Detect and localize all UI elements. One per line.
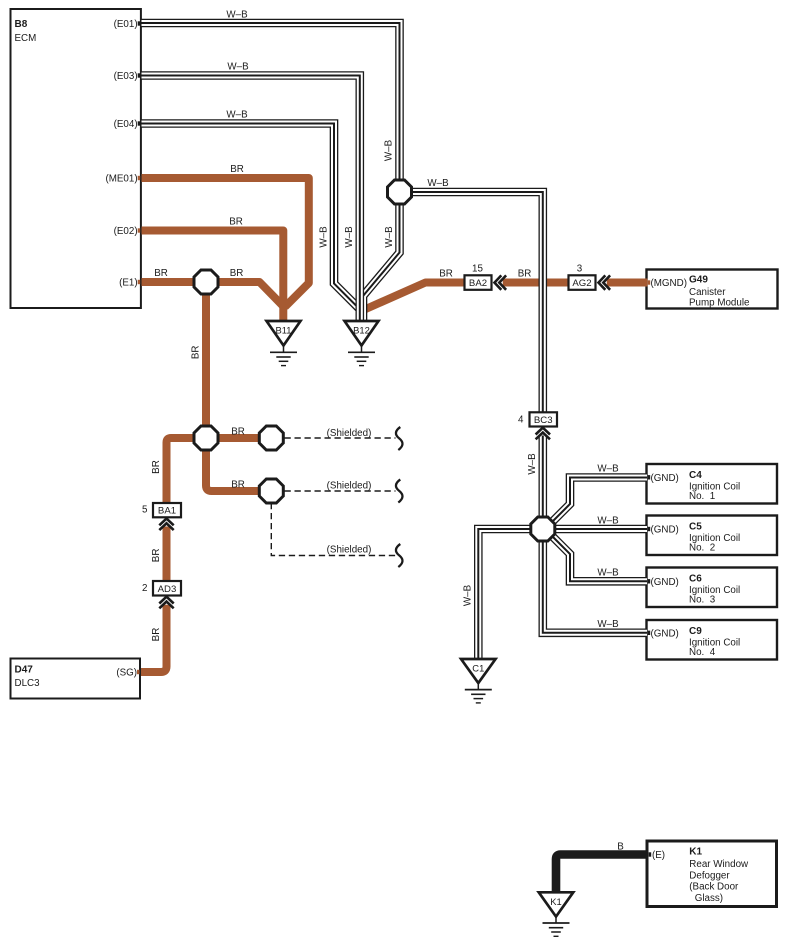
- junction node C (ignition coil splice): [531, 517, 555, 541]
- wire BR from ECM (E1) to junction A: [142, 278, 207, 286]
- connector AD3: [153, 581, 181, 596]
- pin nub SG: [137, 670, 140, 674]
- shield continuation squiggle row 1: [396, 427, 403, 450]
- wire BR from ECM (E02) to B11: [142, 231, 284, 325]
- pin nub E03: [138, 73, 141, 77]
- svg-text:BR: BR: [154, 268, 168, 279]
- ground K1 earth bars: [543, 917, 570, 937]
- svg-text:W–B: W–B: [384, 226, 395, 248]
- wire W-B from ECM (E04) to ground B12: [142, 124, 360, 317]
- wire BR junction D to shield junction F: [206, 448, 260, 491]
- wire W-B junction B to connector BC3: [411, 192, 543, 413]
- svg-text:AD3: AD3: [158, 584, 177, 595]
- pin nub GND of C4: [648, 475, 651, 479]
- C9 Ignition Coil No. 4 box: [647, 620, 778, 660]
- svg-text:C9: C9: [689, 626, 702, 637]
- C6 Ignition Coil No. 3 box: [647, 568, 778, 608]
- svg-text:W–B: W–B: [463, 584, 474, 606]
- wire W-B junction C to ground C1: [478, 529, 531, 661]
- junction node B (W-B splice): [388, 180, 412, 204]
- svg-text:No. 1: No. 1: [689, 491, 715, 502]
- dashed shield line row 1: [285, 437, 396, 439]
- svg-text:BR: BR: [439, 269, 453, 280]
- svg-text:15: 15: [472, 264, 483, 275]
- pin nub GND of C6: [648, 579, 651, 583]
- svg-text:BC3: BC3: [534, 415, 553, 426]
- svg-text:D47: D47: [15, 664, 34, 675]
- svg-text:(E04): (E04): [114, 119, 138, 130]
- ground C1 triangle: [461, 659, 496, 683]
- svg-text:W–B: W–B: [227, 62, 249, 73]
- svg-text:C5: C5: [689, 522, 702, 533]
- shield terminal F: [259, 479, 283, 503]
- pin nub E1: [138, 280, 141, 284]
- wire B (black) from K1 (E) to ground K1: [556, 855, 648, 898]
- pin nub E02: [138, 228, 141, 232]
- connector BA2 chevrons: [495, 275, 507, 289]
- svg-text:W–B: W–B: [597, 516, 619, 527]
- connector AG2 chevrons: [599, 275, 611, 289]
- svg-text:W–B: W–B: [527, 453, 538, 475]
- svg-text:(E03): (E03): [114, 71, 138, 82]
- svg-text:(E02): (E02): [114, 226, 138, 237]
- svg-text:No. 3: No. 3: [689, 595, 716, 606]
- pin nub ME01: [138, 176, 141, 180]
- svg-text:Defogger: Defogger: [689, 870, 730, 881]
- dashed shield line row 3: [271, 503, 395, 556]
- svg-text:W–B: W–B: [597, 619, 619, 630]
- svg-text:(E01): (E01): [114, 19, 138, 30]
- svg-text:(SG): (SG): [116, 668, 137, 679]
- svg-text:Canister: Canister: [689, 287, 726, 298]
- svg-text:(GND): (GND): [651, 577, 679, 588]
- wire W-B junction C to C9 (GND): [543, 540, 647, 633]
- svg-text:DLC3: DLC3: [15, 678, 41, 689]
- wire BR junction D to shield junction E: [216, 434, 260, 442]
- ground B12 earth bars: [348, 346, 375, 366]
- shield terminal E: [259, 426, 283, 450]
- svg-text:B11: B11: [276, 325, 292, 336]
- svg-text:BR: BR: [229, 217, 243, 228]
- svg-text:5: 5: [142, 505, 148, 516]
- wire BR from ground B12 to connector BA2: [364, 283, 465, 311]
- wire BR from connector AG2 chevron to G49 (MGND): [607, 279, 648, 287]
- wire BR from ECM (ME01) to B11: [142, 178, 309, 307]
- svg-text:No. 4: No. 4: [689, 647, 716, 658]
- svg-text:K1: K1: [550, 896, 561, 907]
- svg-text:3: 3: [577, 264, 583, 275]
- svg-text:(Back Door: (Back Door: [689, 882, 739, 893]
- svg-text:(GND): (GND): [651, 628, 679, 639]
- K1 Rear Window Defogger box: [647, 841, 777, 907]
- connector BC3 chevrons: [536, 428, 550, 440]
- G49 Canister Pump Module box: [647, 270, 778, 309]
- wire BR from connector BA2 chevron to connector AG2: [503, 279, 569, 287]
- svg-text:W–B: W–B: [597, 567, 619, 578]
- connector AG2: [569, 275, 596, 290]
- connector BA1: [153, 503, 181, 517]
- svg-text:(GND): (GND): [651, 525, 679, 536]
- ground B11 earth bars: [270, 346, 297, 366]
- wire W-B junction C to C5 (GND): [554, 525, 647, 534]
- wire W-B connector BC3 down to junction C: [538, 436, 547, 518]
- svg-text:G49: G49: [689, 274, 708, 285]
- svg-text:W–B: W–B: [226, 110, 248, 121]
- wire BR junction D to connector BA1: [167, 438, 197, 504]
- svg-text:BR: BR: [230, 164, 244, 175]
- svg-text:BR: BR: [518, 269, 532, 280]
- svg-text:BR: BR: [231, 427, 245, 438]
- wire W-B junction C to C4 (GND): [552, 478, 648, 523]
- wire BR junction A down to junction D: [202, 292, 210, 428]
- connector BA2: [465, 275, 492, 290]
- svg-text:W–B: W–B: [384, 139, 395, 161]
- svg-text:(Shielded): (Shielded): [327, 428, 372, 439]
- wire W-B from ECM (E01) to junction B: [142, 23, 400, 189]
- svg-text:B: B: [617, 841, 624, 852]
- pin nub MGND: [648, 280, 651, 284]
- svg-text:BA2: BA2: [469, 278, 487, 289]
- D47 DLC3 box: [11, 659, 141, 699]
- wire W-B junction B down to ground B12: [363, 204, 400, 323]
- svg-text:C4: C4: [689, 470, 702, 481]
- wire BR junction A to B11: [206, 282, 283, 306]
- svg-text:2: 2: [142, 583, 147, 594]
- svg-text:BR: BR: [151, 549, 162, 563]
- svg-text:BR: BR: [151, 460, 162, 474]
- svg-text:Glass): Glass): [692, 893, 723, 904]
- connector AD3 chevrons: [159, 597, 173, 609]
- svg-text:K1: K1: [689, 846, 702, 857]
- svg-text:(Shielded): (Shielded): [327, 544, 372, 555]
- svg-text:B12: B12: [353, 325, 370, 336]
- ECM box B8: [11, 9, 141, 308]
- svg-text:C1: C1: [472, 663, 484, 674]
- pin nub GND of C9: [648, 631, 651, 635]
- svg-text:(E): (E): [652, 850, 665, 861]
- svg-text:B8: B8: [15, 19, 28, 30]
- wire W-B junction C to C6 (GND): [552, 536, 648, 582]
- pin nub GND of C5: [648, 527, 651, 531]
- svg-text:Pump Module: Pump Module: [689, 298, 750, 309]
- wire W-B from ECM (E03) to ground B12: [142, 76, 360, 324]
- svg-text:(GND): (GND): [651, 473, 679, 484]
- shield continuation squiggle row 2: [396, 480, 403, 503]
- pin nub E of K1: [649, 852, 652, 856]
- C5 Ignition Coil No. 2 box: [647, 516, 778, 556]
- svg-text:W–B: W–B: [597, 463, 619, 474]
- svg-text:BR: BR: [190, 345, 201, 359]
- C4 Ignition Coil No. 1 box: [647, 464, 778, 504]
- svg-text:BR: BR: [151, 628, 162, 642]
- svg-text:BR: BR: [230, 268, 244, 279]
- svg-text:(ME01): (ME01): [105, 174, 137, 185]
- dashed shield line row 2: [285, 490, 396, 492]
- pin nub E04: [138, 121, 141, 125]
- svg-text:W–B: W–B: [318, 226, 329, 248]
- svg-text:Rear Window: Rear Window: [689, 859, 749, 870]
- svg-text:W–B: W–B: [226, 10, 248, 21]
- junction node D (shield splice): [194, 426, 218, 450]
- svg-text:BA1: BA1: [158, 506, 176, 517]
- ground C1 earth bars: [465, 683, 492, 703]
- connector BC3: [530, 412, 558, 426]
- svg-text:(Shielded): (Shielded): [327, 480, 372, 491]
- svg-text:C6: C6: [689, 574, 702, 585]
- pin nub E01: [138, 21, 141, 25]
- svg-text:ECM: ECM: [15, 33, 37, 44]
- ground K1 triangle: [539, 892, 574, 916]
- svg-text:(E1): (E1): [119, 278, 138, 289]
- svg-text:No. 2: No. 2: [689, 543, 715, 554]
- svg-text:AG2: AG2: [572, 278, 591, 289]
- svg-text:(MGND): (MGND): [651, 278, 687, 289]
- svg-text:W–B: W–B: [344, 226, 355, 248]
- connector BA1 chevrons: [159, 519, 173, 531]
- ground B11 triangle: [267, 321, 301, 346]
- wire BR connector BA1 to connector AD3: [163, 527, 171, 583]
- svg-text:BR: BR: [231, 480, 245, 491]
- shield continuation squiggle row 3: [396, 544, 403, 567]
- svg-text:W–B: W–B: [427, 178, 449, 189]
- wire BR connector AD3 to D47 (SG): [141, 605, 167, 672]
- ground B12 triangle: [345, 321, 379, 346]
- junction node A (E1 splice): [194, 270, 218, 294]
- svg-text:4: 4: [518, 414, 524, 425]
